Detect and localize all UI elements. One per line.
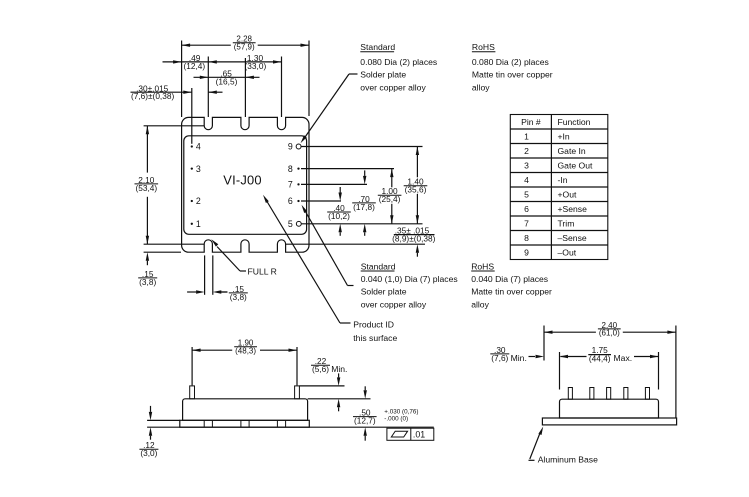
svg-text:7: 7 bbox=[288, 180, 293, 190]
svg-text:0.040 Dia (7) places: 0.040 Dia (7) places bbox=[471, 274, 548, 284]
svg-text:Max.: Max. bbox=[614, 353, 633, 363]
svg-text:(3,8): (3,8) bbox=[139, 277, 156, 287]
svg-text:(7,6)±(0,38): (7,6)±(0,38) bbox=[131, 91, 175, 101]
svg-text:(8,9)±(0,38): (8,9)±(0,38) bbox=[392, 234, 436, 244]
svg-text:Aluminum Base: Aluminum Base bbox=[538, 454, 598, 464]
svg-text:+Out: +Out bbox=[558, 190, 577, 200]
svg-text:over copper alloy: over copper alloy bbox=[360, 82, 426, 92]
svg-text:3: 3 bbox=[524, 161, 529, 171]
svg-text:8: 8 bbox=[524, 233, 529, 243]
svg-text:Standard: Standard bbox=[360, 42, 395, 52]
svg-text:(57,9): (57,9) bbox=[234, 43, 255, 52]
svg-text:6: 6 bbox=[288, 196, 293, 206]
svg-text:0.080 Dia (2) places: 0.080 Dia (2) places bbox=[472, 57, 549, 67]
svg-text:Solder plate: Solder plate bbox=[360, 70, 406, 80]
svg-text:(7,6): (7,6) bbox=[491, 353, 508, 363]
svg-text:Matte tin over copper: Matte tin over copper bbox=[472, 70, 553, 80]
svg-text:4: 4 bbox=[524, 175, 529, 185]
svg-text:(12,7): (12,7) bbox=[354, 416, 376, 426]
svg-text:0.080 Dia (2) places: 0.080 Dia (2) places bbox=[360, 57, 437, 67]
svg-text:4: 4 bbox=[196, 142, 201, 152]
svg-text:(3,8): (3,8) bbox=[230, 292, 247, 302]
svg-text:–Out: –Out bbox=[558, 248, 577, 258]
svg-text:Min.: Min. bbox=[331, 364, 347, 374]
svg-text:Gate Out: Gate Out bbox=[558, 161, 593, 171]
svg-text:(16,5): (16,5) bbox=[216, 76, 238, 86]
svg-text:6: 6 bbox=[524, 204, 529, 214]
svg-text:Function: Function bbox=[558, 117, 591, 127]
svg-text:Trim: Trim bbox=[558, 219, 575, 229]
svg-text:Pin #: Pin # bbox=[521, 117, 541, 127]
svg-text:FULL R: FULL R bbox=[248, 266, 277, 276]
svg-text:(10,2): (10,2) bbox=[328, 211, 350, 221]
svg-text:+In: +In bbox=[558, 132, 570, 142]
svg-text:(33,0): (33,0) bbox=[245, 61, 267, 71]
svg-text:8: 8 bbox=[288, 164, 293, 174]
svg-text:-In: -In bbox=[558, 175, 568, 185]
svg-text:3: 3 bbox=[196, 164, 201, 174]
svg-text:RoHS: RoHS bbox=[471, 261, 494, 271]
svg-text:2: 2 bbox=[524, 146, 529, 156]
svg-text:Standard: Standard bbox=[361, 261, 396, 271]
svg-text:(17,8): (17,8) bbox=[353, 202, 375, 212]
svg-text:5: 5 bbox=[288, 219, 293, 229]
svg-text:Product ID: Product ID bbox=[353, 319, 394, 329]
svg-text:(12,4): (12,4) bbox=[183, 61, 205, 71]
svg-text:(44,4): (44,4) bbox=[589, 353, 611, 363]
svg-text:(3,0): (3,0) bbox=[140, 448, 157, 458]
svg-text:over copper alloy: over copper alloy bbox=[361, 299, 427, 309]
svg-text:+Sense: +Sense bbox=[558, 204, 588, 214]
svg-text:–Sense: –Sense bbox=[558, 233, 587, 243]
svg-text:7: 7 bbox=[524, 219, 529, 229]
svg-text:.01: .01 bbox=[413, 429, 425, 439]
svg-text:Min.: Min. bbox=[511, 353, 527, 363]
svg-text:(61,0): (61,0) bbox=[599, 329, 620, 338]
svg-text:Solder plate: Solder plate bbox=[361, 287, 407, 297]
svg-text:(35,6): (35,6) bbox=[405, 185, 427, 195]
svg-text:Matte tin over copper: Matte tin over copper bbox=[471, 287, 552, 297]
svg-text:(48,3): (48,3) bbox=[235, 347, 256, 356]
svg-text:2: 2 bbox=[196, 196, 201, 206]
svg-text:9: 9 bbox=[288, 142, 293, 152]
svg-text:0.040 (1,0) Dia (7) places: 0.040 (1,0) Dia (7) places bbox=[361, 274, 458, 284]
svg-text:(5,6): (5,6) bbox=[312, 364, 329, 374]
svg-text:alloy: alloy bbox=[471, 299, 489, 309]
svg-text:this surface: this surface bbox=[353, 333, 397, 343]
svg-text:Gate In: Gate In bbox=[558, 146, 586, 156]
svg-text:(53,4): (53,4) bbox=[135, 183, 157, 193]
svg-text:-.000 (0): -.000 (0) bbox=[384, 415, 408, 422]
svg-text:(25,4): (25,4) bbox=[379, 194, 401, 204]
svg-text:VI-J00: VI-J00 bbox=[223, 172, 261, 187]
svg-text:1: 1 bbox=[524, 132, 529, 142]
svg-text:5: 5 bbox=[524, 190, 529, 200]
svg-text:alloy: alloy bbox=[472, 82, 490, 92]
svg-text:9: 9 bbox=[524, 248, 529, 258]
svg-text:1: 1 bbox=[196, 219, 201, 229]
svg-text:RoHS: RoHS bbox=[472, 42, 495, 52]
